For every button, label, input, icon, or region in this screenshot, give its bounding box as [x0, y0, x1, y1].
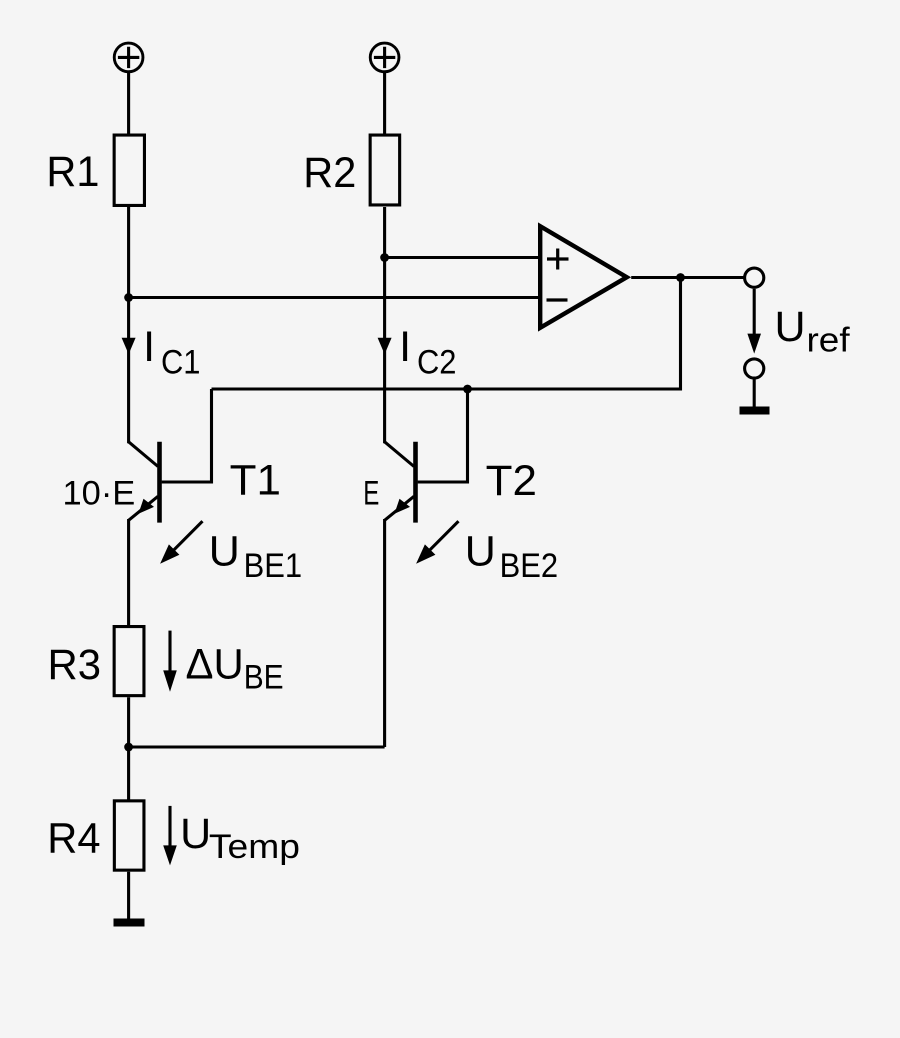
node dot T2 base tap	[463, 385, 472, 394]
wire to op-amp minus input	[129, 296, 540, 299]
svg-text:BE2: BE2	[500, 547, 558, 585]
arrow U_ref	[747, 289, 761, 354]
node dot right rail	[380, 253, 389, 262]
svg-text:I: I	[143, 323, 155, 371]
terminal Uref bottom circle	[745, 359, 764, 378]
svg-text:ref: ref	[807, 322, 851, 360]
wire R2 to T2 collector	[383, 207, 386, 443]
svg-text:U: U	[209, 528, 240, 576]
wire T2 base riser	[418, 389, 468, 482]
label U_Temp	[180, 810, 300, 866]
svg-text:T2: T2	[486, 457, 537, 505]
transistor T2	[385, 442, 416, 523]
svg-text:C1: C1	[161, 344, 201, 382]
resistor R1	[114, 135, 144, 205]
arrow dU_BE	[163, 631, 177, 692]
node dot left rail	[124, 293, 133, 302]
transistor T1	[129, 442, 160, 523]
power terminal V+ left	[114, 43, 143, 72]
svg-text:C2: C2	[417, 344, 457, 382]
svg-text:R4: R4	[47, 814, 100, 862]
svg-text:U: U	[465, 528, 496, 576]
wire supply1 to R1	[127, 72, 130, 135]
svg-text:E: E	[363, 474, 379, 512]
svg-text:BE: BE	[244, 659, 284, 697]
feedback wire down and left	[212, 278, 681, 390]
wire emitter row	[129, 745, 385, 748]
label U_BE2	[465, 528, 558, 585]
wire R4 to ground	[127, 872, 130, 919]
arrow U_BE1	[160, 521, 202, 564]
svg-text:U: U	[775, 303, 806, 351]
svg-text:I: I	[399, 323, 411, 371]
resistor R4	[114, 801, 144, 870]
resistor R2	[370, 135, 400, 205]
wire to op-amp plus input	[385, 256, 540, 259]
node dot emitter row	[124, 743, 133, 752]
wire to ground right	[753, 378, 756, 407]
svg-text:BE1: BE1	[244, 547, 303, 585]
svg-text:R3: R3	[48, 641, 102, 689]
svg-text:Temp: Temp	[209, 828, 300, 866]
current arrow IC1	[122, 338, 136, 354]
svg-text:10·E: 10·E	[63, 474, 136, 512]
label U_BE1	[209, 528, 302, 585]
op-amp output wire	[631, 276, 745, 279]
terminal Uref top circle	[745, 268, 764, 287]
ground right	[740, 407, 770, 415]
label I_C1	[143, 323, 200, 381]
svg-text:T1: T1	[230, 456, 281, 504]
wire supply2 to R2	[383, 72, 386, 135]
svg-text:U: U	[180, 810, 211, 858]
svg-text:R1: R1	[46, 148, 99, 196]
ground bottom	[114, 919, 145, 927]
wire R3 to R4	[127, 697, 130, 800]
arrow U_BE2	[416, 521, 458, 564]
resistor R3	[114, 627, 144, 696]
current arrow IC2	[378, 338, 392, 354]
arrow U_Temp	[163, 806, 177, 866]
op-amp U1	[540, 226, 627, 328]
wire T2 emitter down to node row	[383, 519, 386, 747]
svg-text:ΔU: ΔU	[186, 640, 244, 688]
label U_ref	[775, 303, 851, 360]
label dU_BE	[186, 640, 284, 696]
wire T1 base riser	[162, 389, 212, 482]
svg-text:R2: R2	[303, 149, 356, 197]
wire T1 emitter down to R3	[127, 519, 130, 627]
label I_C2	[399, 323, 456, 381]
power terminal V+ right	[370, 43, 399, 72]
node dot output	[676, 273, 685, 282]
wire R1 to T1 collector	[127, 207, 130, 443]
